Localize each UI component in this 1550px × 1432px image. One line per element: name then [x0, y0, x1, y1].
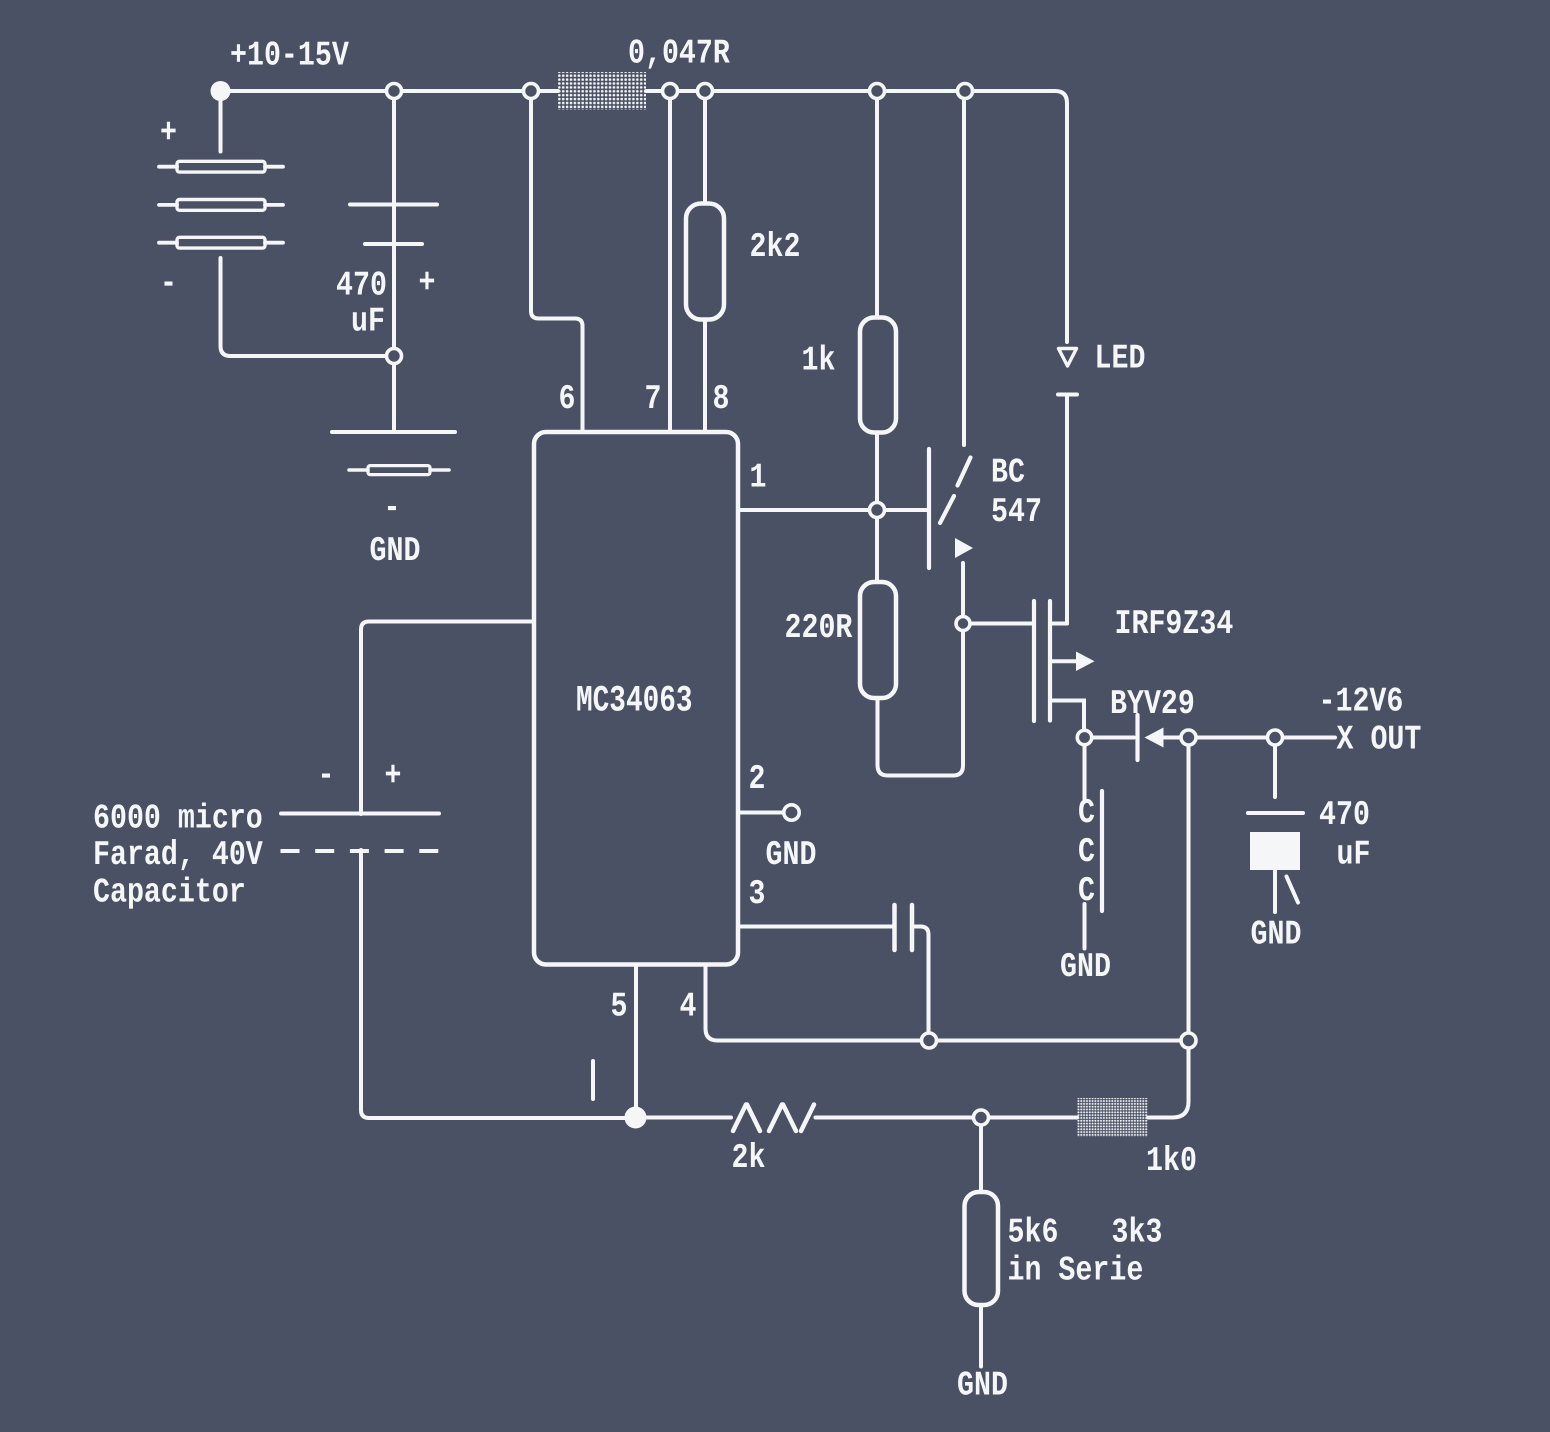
svg-text:C: C — [1078, 833, 1095, 872]
svg-text:IRF9Z34: IRF9Z34 — [1115, 605, 1234, 644]
svg-text:GND: GND — [370, 532, 421, 571]
svg-text:+10-15V: +10-15V — [230, 37, 349, 76]
svg-text:-: - — [384, 489, 401, 528]
svg-text:1k: 1k — [802, 342, 836, 381]
svg-text:uF: uF — [1337, 836, 1371, 875]
svg-text:Capacitor: Capacitor — [93, 874, 246, 913]
svg-text:GND: GND — [1251, 916, 1302, 955]
svg-text:1k0: 1k0 — [1146, 1142, 1197, 1181]
svg-text:4: 4 — [680, 988, 697, 1027]
svg-text:1: 1 — [750, 459, 767, 498]
svg-text:+: + — [385, 757, 402, 796]
svg-text:LED: LED — [1095, 340, 1146, 379]
svg-text:6: 6 — [559, 380, 576, 419]
svg-text:547: 547 — [991, 493, 1042, 532]
svg-text:0,047R: 0,047R — [628, 35, 730, 74]
svg-text:2k2: 2k2 — [750, 228, 801, 267]
svg-text:3: 3 — [749, 875, 766, 914]
svg-text:+: + — [419, 264, 436, 303]
svg-text:5: 5 — [611, 988, 628, 1027]
svg-text:-12V6: -12V6 — [1319, 683, 1404, 722]
svg-text:8: 8 — [713, 380, 730, 419]
svg-text:in Serie: in Serie — [1008, 1252, 1144, 1291]
svg-text:+: + — [160, 114, 177, 153]
svg-text:7: 7 — [645, 380, 662, 419]
svg-text:5k6: 5k6 — [1008, 1214, 1059, 1253]
svg-text:-: - — [318, 757, 335, 796]
svg-text:BC: BC — [991, 454, 1025, 493]
svg-text:470: 470 — [1319, 796, 1370, 835]
svg-text:6000 micro: 6000 micro — [93, 800, 263, 839]
svg-text:GND: GND — [1060, 948, 1111, 987]
svg-text:C: C — [1078, 794, 1095, 833]
svg-text:3k3: 3k3 — [1112, 1214, 1163, 1253]
svg-text:-: - — [160, 265, 177, 304]
svg-text:X OUT: X OUT — [1337, 721, 1422, 760]
svg-text:2: 2 — [749, 760, 766, 799]
svg-text:470: 470 — [336, 267, 387, 306]
svg-text:GND: GND — [766, 836, 817, 875]
svg-text:C: C — [1078, 872, 1095, 911]
svg-text:BYV29: BYV29 — [1110, 685, 1195, 724]
svg-text:2k: 2k — [732, 1139, 766, 1178]
svg-text:MC34063: MC34063 — [576, 681, 693, 723]
svg-text:Farad, 40V: Farad, 40V — [93, 836, 263, 875]
svg-text:GND: GND — [957, 1367, 1008, 1406]
svg-text:uF: uF — [351, 303, 385, 342]
svg-text:220R: 220R — [785, 609, 853, 648]
